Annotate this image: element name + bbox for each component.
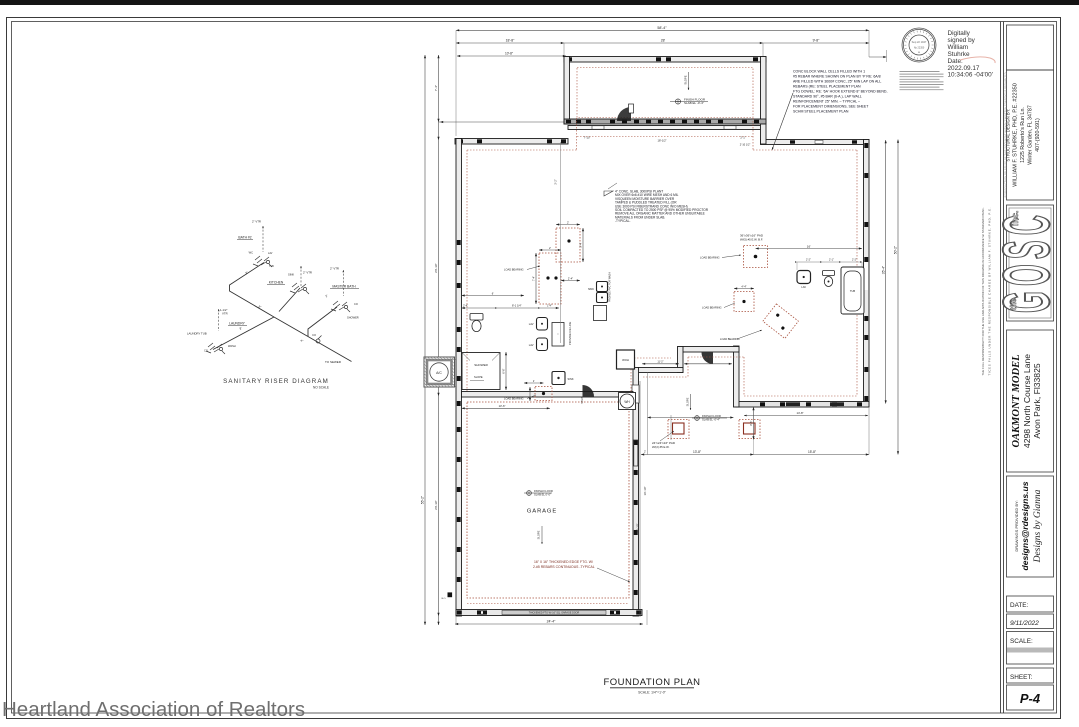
svg-text:1'-4": 1'-4" xyxy=(547,305,552,308)
overall top dimension 58'-4 xyxy=(456,29,869,31)
step wall vertical xyxy=(678,347,684,373)
svg-text:10:34:06 -04'00': 10:34:06 -04'00' xyxy=(948,72,993,79)
garage right footing dashed upper xyxy=(630,366,632,402)
svg-text:No 22350: No 22350 xyxy=(914,47,925,50)
title block margin tiny text xyxy=(1004,72,1007,197)
svg-text:SINK: SINK xyxy=(568,377,574,381)
side disclaimer rotated tiny text xyxy=(981,207,992,375)
svg-text:407-(920-591): 407-(920-591) xyxy=(1035,118,1041,152)
porch finish floor symbol xyxy=(670,99,708,104)
riser fitting cluster bath2 xyxy=(253,256,272,267)
rear wing left wall xyxy=(734,346,740,407)
svg-text:LOAD BEARING: LOAD BEARING xyxy=(720,337,739,341)
interior vertical dim x560 xyxy=(560,142,562,343)
svg-text:3'-4": 3'-4" xyxy=(579,242,583,247)
svg-text:9'-8": 9'-8" xyxy=(813,39,821,43)
svg-text:16" X 16" THICKENED EDGE FTG.: 16" X 16" THICKENED EDGE FTG. W/ xyxy=(534,560,593,564)
svg-text:3'-2": 3'-2" xyxy=(554,179,558,185)
svg-text:35'-4": 35'-4" xyxy=(881,265,885,274)
svg-text:55'-2": 55'-2" xyxy=(421,495,425,504)
svg-text:MASTER BATH: MASTER BATH xyxy=(332,285,356,289)
svg-text:3": 3" xyxy=(244,270,248,275)
bottom dim row rear porch xyxy=(641,454,869,456)
AC pad xyxy=(424,357,455,387)
svg-text:58'-4": 58'-4" xyxy=(657,26,667,30)
svg-text:LOAD BEARING: LOAD BEARING xyxy=(702,306,721,310)
svg-text:★: ★ xyxy=(918,51,920,54)
svg-text:10'-10": 10'-10" xyxy=(643,487,647,496)
svg-text:15'-8": 15'-8" xyxy=(808,450,816,454)
svg-text:TUB: TUB xyxy=(850,289,855,293)
svg-text:B.O.: B.O. xyxy=(442,598,447,600)
svg-text:REBARS (RE: STEEL PLACEMENT PL: REBARS (RE: STEEL PLACEMENT PLAN xyxy=(793,85,861,89)
third level dim 10'-8 xyxy=(457,55,566,57)
riser kitchen branch xyxy=(279,288,300,312)
svg-text:SHOWER: SHOWER xyxy=(347,316,359,320)
svg-text:13'-6": 13'-6" xyxy=(499,404,506,408)
main footing dashed wing bottom xyxy=(744,395,857,397)
dim extension verticals top xyxy=(455,30,457,136)
svg-text:ARE FILLED WITH 3000# CONC, 25: ARE FILLED WITH 3000# CONC, 25" MIN LAP … xyxy=(793,80,881,84)
step dim xyxy=(642,363,679,365)
water heater xyxy=(619,393,636,410)
right wing bottom wall xyxy=(736,402,869,408)
title block engineer box xyxy=(1007,70,1054,200)
garage door side jambs xyxy=(632,385,639,403)
svg-text:23'-10": 23'-10" xyxy=(434,500,438,510)
title block empty top box xyxy=(1007,25,1054,70)
svg-text:REPRODUCTION OR REUSE OF THIS: REPRODUCTION OR REUSE OF THIS DOCUMENT W… xyxy=(1004,72,1007,197)
vanity cabinet xyxy=(552,323,564,347)
svg-text:CO: CO xyxy=(312,333,316,337)
engineer address rotated text xyxy=(1006,83,1042,187)
svg-text:Heartland Association of Realt: Heartland Association of Realtors xyxy=(2,698,305,721)
svg-text:DATE:: DATE: xyxy=(1010,602,1029,609)
svg-text:LAV: LAV xyxy=(801,285,806,289)
svg-text:9/11/2022: 9/11/2022 xyxy=(1010,620,1039,627)
svg-text:11'-2": 11'-2" xyxy=(657,361,663,364)
svg-text:4": 4" xyxy=(300,338,304,343)
svg-text:FINISH FLOOR: FINISH FLOOR xyxy=(534,489,553,493)
svg-text:LAUNDRY TUB: LAUNDRY TUB xyxy=(187,332,207,336)
load bearing pad small right xyxy=(734,292,754,312)
svg-text:LAV: LAV xyxy=(529,343,534,347)
svg-text:SINK: SINK xyxy=(288,273,294,277)
svg-text:2": 2" xyxy=(324,294,328,299)
toilet right wing xyxy=(823,271,835,276)
concrete slab note xyxy=(604,191,613,196)
svg-text:NO SCALE: NO SCALE xyxy=(313,386,329,390)
svg-text:SCALE:: SCALE: xyxy=(1010,638,1033,645)
step wall horizontal xyxy=(637,368,683,373)
garage step door swing xyxy=(583,385,595,397)
svg-text:SLOPE: SLOPE xyxy=(537,530,541,539)
svg-text:18'-1/2": 18'-1/2" xyxy=(657,139,666,143)
main footing dashed top-right xyxy=(753,149,857,151)
svg-text:3": 3" xyxy=(239,326,243,331)
second row dims 18'-8 / 28' / 9'-8 xyxy=(456,42,869,44)
left wall bottom marker xyxy=(448,592,453,597)
svg-text:TICES FALLS UNDER THE RESPONSI: TICES FALLS UNDER THE RESPONSIBLE CHARGE… xyxy=(988,207,992,375)
svg-text:SLAB EL 0'-0": SLAB EL 0'-0" xyxy=(534,492,551,496)
svg-text:SLAB EL -0'-4": SLAB EL -0'-4" xyxy=(702,417,720,421)
rear area dims xyxy=(647,373,649,455)
lav 1 xyxy=(537,318,548,331)
toilet WC master xyxy=(470,314,483,321)
riser master branch xyxy=(308,307,337,337)
svg-text:STANDARD 90°, #5 BAR (6-A.), L: STANDARD 90°, #5 BAR (6-A.), LAP WALL xyxy=(793,95,862,99)
garage finish floor symbol xyxy=(524,492,552,494)
svg-text:23'-10": 23'-10" xyxy=(636,523,640,532)
svg-text:2': 2' xyxy=(549,246,551,250)
svg-text:signed by: signed by xyxy=(948,37,976,44)
svg-text:PROVIDE ICE LINE: PROVIDE ICE LINE xyxy=(568,322,572,345)
main wall below porch xyxy=(564,119,766,124)
wh footing dashed link xyxy=(634,357,671,359)
svg-text:28': 28' xyxy=(661,39,666,43)
garage bottom footing dashed xyxy=(467,603,629,605)
svg-text:7'-4": 7'-4" xyxy=(434,85,438,91)
master bath lav right wing xyxy=(797,271,811,284)
main footing dashed top-left xyxy=(467,149,577,151)
porch right wall xyxy=(761,57,767,125)
svg-text:BATH #2: BATH #2 xyxy=(238,236,251,240)
svg-text:2'-1": 2'-1" xyxy=(829,259,834,262)
laundry sink xyxy=(552,372,565,385)
svg-text:SHEET:: SHEET: xyxy=(1010,674,1033,681)
signature fine print xyxy=(900,71,940,73)
svg-text:W/(5) #5 E.W. B.F.: W/(5) #5 E.W. B.F. xyxy=(740,238,763,242)
riser CO on main xyxy=(316,339,320,343)
svg-text:50'-2": 50'-2" xyxy=(894,245,898,254)
main footing dashed below porch xyxy=(577,136,753,138)
riser laundry branch xyxy=(213,317,274,350)
svg-text:inc.: inc. xyxy=(1010,210,1020,226)
svg-text:KITCHEN: KITCHEN xyxy=(269,281,284,285)
svg-text:2': 2' xyxy=(533,380,535,383)
svg-text:LAV: LAV xyxy=(268,252,273,255)
svg-text:LAV: LAV xyxy=(529,322,534,326)
svg-text:SLOPE: SLOPE xyxy=(686,397,690,406)
signature pink swoosh xyxy=(960,57,995,63)
svg-text:STEP: STEP xyxy=(581,397,584,404)
range box xyxy=(594,306,607,321)
svg-text:3'-6": 3'-6" xyxy=(749,421,753,426)
svg-text:FOUNDATION PLAN: FOUNDATION PLAN xyxy=(603,677,700,688)
svg-text:GOSC: GOSC xyxy=(989,215,1063,313)
sanitary riser main sewer line xyxy=(213,263,352,362)
riser vents dashed xyxy=(262,226,264,252)
load bearing pad at garage wall xyxy=(535,387,552,401)
GOSC logo box xyxy=(1007,205,1054,321)
svg-text:24'-4": 24'-4" xyxy=(547,620,556,624)
shower enclosure xyxy=(462,353,500,390)
bath tub xyxy=(841,267,864,314)
washer pedestal box xyxy=(617,350,635,369)
svg-text:WH: WH xyxy=(624,400,630,404)
svg-text:14'-8": 14'-8" xyxy=(796,411,803,415)
svg-text:SINK: SINK xyxy=(588,287,594,291)
note leader arrow xyxy=(772,93,793,150)
svg-text:8'-1 1/4": 8'-1 1/4" xyxy=(512,304,522,308)
svg-text:2'-4": 2'-4" xyxy=(568,276,573,280)
title block separator double line xyxy=(1000,22,1002,714)
left wing top wall xyxy=(455,139,568,145)
garage right wall xyxy=(633,368,639,617)
svg-text:6'-6": 6'-6" xyxy=(502,368,506,373)
svg-text:SLOPE: SLOPE xyxy=(684,75,688,84)
porch footing dashed xyxy=(577,68,753,118)
garage bottom dim 24-4 xyxy=(455,623,643,625)
svg-text:Sep 22 1947: Sep 22 1947 xyxy=(912,40,927,44)
dim under wing bottom wall xyxy=(744,415,868,417)
svg-text:THICKENED FTG W/ 16" SQ. GARAG: THICKENED FTG W/ 16" SQ. GARAGE DOOR xyxy=(529,612,580,615)
dim 16ft across wing xyxy=(756,248,863,250)
svg-text:2': 2' xyxy=(644,450,646,454)
svg-text:LAUNDRY: LAUNDRY xyxy=(229,322,245,326)
right wing fixture dims xyxy=(797,261,862,263)
svg-text:4298 North Course Lane: 4298 North Course Lane xyxy=(1022,354,1032,448)
garage right vert dim xyxy=(639,381,641,617)
svg-text:CO: CO xyxy=(204,349,208,353)
svg-text:I: I xyxy=(558,332,559,336)
svg-text:Avon Park, Fl33825: Avon Park, Fl33825 xyxy=(1032,363,1042,439)
svg-text:3": 3" xyxy=(258,304,262,309)
left exterior wall xyxy=(456,139,462,617)
upper load bearing pads cluster xyxy=(556,228,580,262)
svg-text:2-#5 REBARS CONTINUOUS -TYPIC: 2-#5 REBARS CONTINUOUS -TYPICAL xyxy=(533,565,595,569)
svg-text:2'-2": 2'-2" xyxy=(852,259,857,262)
svg-text:-TYPICAL-: -TYPICAL- xyxy=(615,219,630,223)
AC hatch ticks xyxy=(425,358,428,361)
svg-text:SHOWER: SHOWER xyxy=(474,363,488,367)
garage footing dashed rect xyxy=(467,402,629,598)
right overhang dim xyxy=(869,56,887,58)
svg-text:A/C: A/C xyxy=(436,371,442,375)
page top black bar xyxy=(0,0,1079,5)
rear right dim xyxy=(753,407,755,440)
svg-text:the: the xyxy=(1009,297,1018,310)
svg-text:2'-10 1/2": 2'-10 1/2" xyxy=(740,143,751,146)
sheet number box xyxy=(1007,685,1054,710)
svg-text:Stuhrke: Stuhrke xyxy=(948,51,970,58)
interior long dim line y122 xyxy=(439,121,764,123)
project name box OAKMONT xyxy=(1007,330,1054,472)
rear porch finish floor symbol xyxy=(692,417,727,419)
svg-text:SCHM STEEL PLACEMENT PLAN: SCHM STEEL PLACEMENT PLAN xyxy=(793,110,849,114)
svg-text:W/(2) #5 E.W.: W/(2) #5 E.W. xyxy=(652,445,670,449)
svg-text:13'-8": 13'-8" xyxy=(693,450,701,454)
right exterior wall xyxy=(864,140,870,408)
left dimension column outer 55'-2 xyxy=(424,55,426,625)
notary seal circle xyxy=(902,28,936,62)
svg-text:WILLIAM F. STUHRKE, PHD, P.E.: WILLIAM F. STUHRKE, PHD, P.E. #22350 xyxy=(1013,83,1019,187)
svg-text:VTR: VTR xyxy=(222,312,228,316)
svg-text:SCALE: 1/4"=1'-0": SCALE: 1/4"=1'-0" xyxy=(638,691,666,695)
svg-text:REINFORCEMENT 25" MIN. – TYPIC: REINFORCEMENT 25" MIN. – TYPICAL – xyxy=(793,100,860,104)
sheet label box xyxy=(1007,668,1054,683)
GOSC logo rotated outline letters xyxy=(989,215,1063,313)
svg-text:Winter Garden, FL 34787: Winter Garden, FL 34787 xyxy=(1028,105,1034,165)
svg-text:TUB: TUB xyxy=(269,265,274,268)
porch-to-wing connector wall xyxy=(761,124,767,144)
shower dims xyxy=(462,295,525,297)
svg-text:FTG DOWEL: RE: '6A' HOOK EXTEN: FTG DOWEL: RE: '6A' HOOK EXTEND 8" BEYON… xyxy=(793,90,887,94)
porch door swing xyxy=(617,107,631,121)
load bearing pad 36in xyxy=(744,246,768,268)
svg-text:2'-2": 2'-2" xyxy=(806,259,811,262)
garage bottom wall xyxy=(456,610,642,616)
main footing dashed left run xyxy=(466,150,468,391)
svg-text:DRAWINGS PROVIDED BY:: DRAWINGS PROVIDED BY: xyxy=(1014,500,1019,551)
svg-text:1225 Roberto's Run Ln.: 1225 Roberto's Run Ln. xyxy=(1020,107,1026,163)
porch column pads xyxy=(668,420,689,439)
svg-text:LOAD BEARING: LOAD BEARING xyxy=(700,256,719,260)
interior dims left cluster xyxy=(462,307,560,309)
svg-text:TO SEWER: TO SEWER xyxy=(325,360,342,364)
svg-text:CO: CO xyxy=(354,302,358,306)
main footing dashed step area xyxy=(743,357,745,396)
svg-text:2': 2' xyxy=(567,220,569,224)
svg-text:SANITARY RISER DIAGRAM: SANITARY RISER DIAGRAM xyxy=(223,378,329,385)
left dimension column inner xyxy=(438,55,440,625)
svg-text:P-4: P-4 xyxy=(1020,691,1041,706)
svg-text:William: William xyxy=(948,44,969,51)
svg-text:THE FULL RESPONSIBILITY FOR TH: THE FULL RESPONSIBILITY FOR THE USE AND … xyxy=(981,207,985,375)
svg-text:Designs by Gianna: Designs by Gianna xyxy=(1033,489,1043,563)
svg-text:WASH: WASH xyxy=(228,344,236,348)
svg-text:Digitally: Digitally xyxy=(948,30,971,37)
svg-text:OAKMONT MODEL: OAKMONT MODEL xyxy=(1011,354,1022,447)
svg-text:2'-4": 2'-4" xyxy=(463,304,468,308)
bath area dim row xyxy=(462,407,551,409)
svg-text:18'-8": 18'-8" xyxy=(506,39,515,43)
svg-text:PROVIDE PVC FOR WASH: PROVIDE PVC FOR WASH xyxy=(609,272,612,302)
main footing dashed right run xyxy=(856,150,858,396)
svg-text:LOAD BEARING: LOAD BEARING xyxy=(504,268,523,272)
svg-text:2022.09.17: 2022.09.17 xyxy=(948,65,980,72)
svg-text:#5 REBAR WHERE SHOWN ON PLAN B: #5 REBAR WHERE SHOWN ON PLAN BY '#' RE: … xyxy=(793,75,881,79)
secondary sill band xyxy=(568,126,762,130)
svg-text:7'-4": 7'-4" xyxy=(532,276,536,281)
seal ring squiggle text xyxy=(932,44,934,46)
svg-text:Date:: Date: xyxy=(948,58,963,65)
svg-text:designs@rdesigns.us: designs@rdesigns.us xyxy=(1020,481,1030,570)
svg-text:6': 6' xyxy=(492,291,494,295)
svg-text:23'-10": 23'-10" xyxy=(434,263,438,273)
svg-text:2" VTR: 2" VTR xyxy=(330,267,339,271)
right dimension column outer xyxy=(897,140,899,455)
svg-text:WC: WC xyxy=(249,251,253,255)
kitchen double sink xyxy=(597,282,608,292)
right dimension column 35'-4 xyxy=(885,140,887,404)
svg-text:SLOPE: SLOPE xyxy=(474,375,483,379)
scale box xyxy=(1007,632,1054,665)
svg-text:FOR PLACEMENT DIMENSIONS, SEE: FOR PLACEMENT DIMENSIONS, SEE SHEET xyxy=(793,105,869,109)
right wing top wall xyxy=(761,140,870,145)
porch top wall xyxy=(564,57,766,63)
svg-text:10'-8": 10'-8" xyxy=(505,52,513,56)
diagonal load bearing pad xyxy=(763,304,799,339)
date value box xyxy=(1007,614,1054,629)
date label box xyxy=(1007,596,1054,612)
porch left wall xyxy=(564,57,570,125)
svg-text:2" VTR: 2" VTR xyxy=(252,220,261,224)
rear center wall xyxy=(678,347,739,353)
svg-text:LOAD BEARING: LOAD BEARING xyxy=(504,397,523,401)
designer box xyxy=(1007,476,1054,577)
svg-text:2" VTR: 2" VTR xyxy=(303,271,312,275)
svg-text:FINISH FLOOR: FINISH FLOOR xyxy=(702,414,721,418)
svg-text:GARAGE: GARAGE xyxy=(527,509,557,515)
svg-text:4'-4": 4'-4" xyxy=(741,284,746,288)
svg-text:WOH: WOH xyxy=(622,358,629,362)
lav 2 xyxy=(537,338,548,351)
garage top wall xyxy=(462,392,634,398)
svg-text:CONC BLOCK WALL CELLS FILLED W: CONC BLOCK WALL CELLS FILLED WITH 1 xyxy=(793,70,865,74)
rear door swing xyxy=(702,353,714,365)
svg-text:SLAB EL -0'-4": SLAB EL -0'-4" xyxy=(684,101,704,105)
svg-text:16': 16' xyxy=(807,244,811,248)
